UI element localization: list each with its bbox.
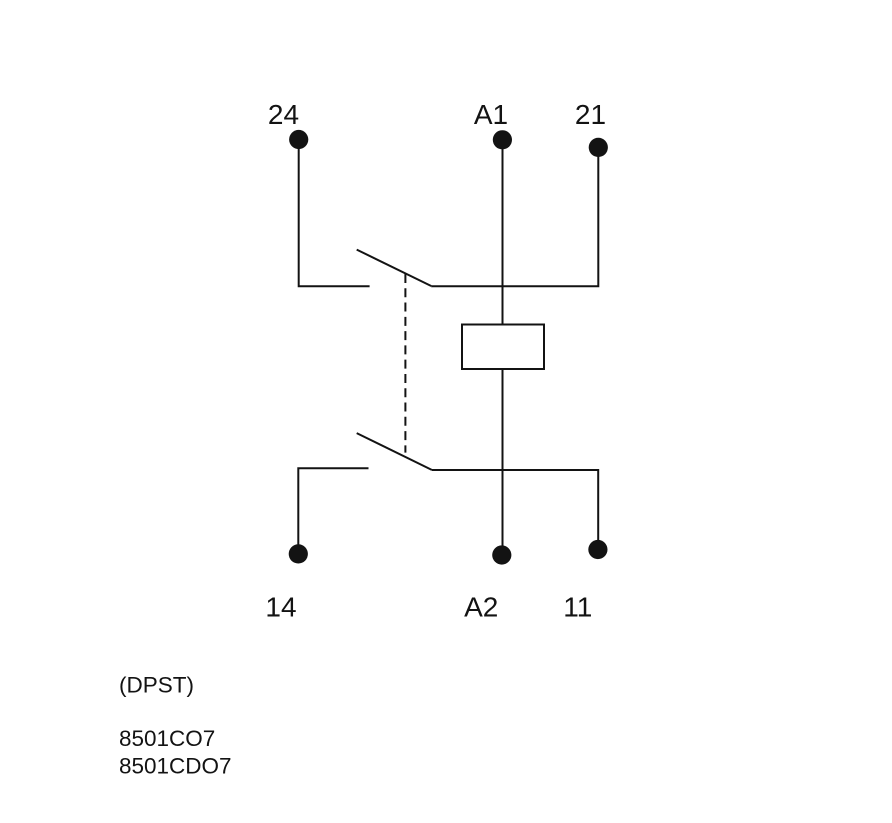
wire upper right: blade tip to 21 — [431, 156, 598, 286]
svg-text:A1: A1 — [474, 99, 508, 130]
wire lower right: blade tip to 11 — [432, 470, 598, 541]
terminal A2 dot — [492, 545, 511, 564]
wire lower left: fixed contact to 14 — [298, 468, 368, 546]
coil K1 — [462, 325, 544, 370]
contact blade lower pole — [357, 433, 432, 470]
svg-text:24: 24 — [268, 99, 299, 130]
svg-text:14: 14 — [265, 592, 296, 623]
terminal A1 dot — [493, 130, 512, 149]
wire 24 vertical + left fixed contact lead — [299, 148, 370, 286]
contact blade upper pole — [357, 250, 432, 286]
svg-text:21: 21 — [575, 99, 606, 130]
wire A1 to coil — [502, 148, 504, 325]
svg-text:(DPST): (DPST) — [119, 673, 194, 698]
svg-text:A2: A2 — [464, 591, 498, 622]
terminal 21 dot — [589, 138, 608, 157]
svg-text:11: 11 — [563, 591, 592, 622]
svg-text:8501CO7: 8501CO7 — [119, 726, 215, 751]
terminal 24 dot — [289, 130, 308, 149]
terminal 14 dot — [289, 544, 308, 563]
terminal 11 dot — [588, 540, 607, 559]
mechanical linkage (dashed) — [404, 274, 406, 453]
wire coil to A2 — [502, 369, 504, 546]
svg-text:8501CDO7: 8501CDO7 — [119, 754, 232, 779]
